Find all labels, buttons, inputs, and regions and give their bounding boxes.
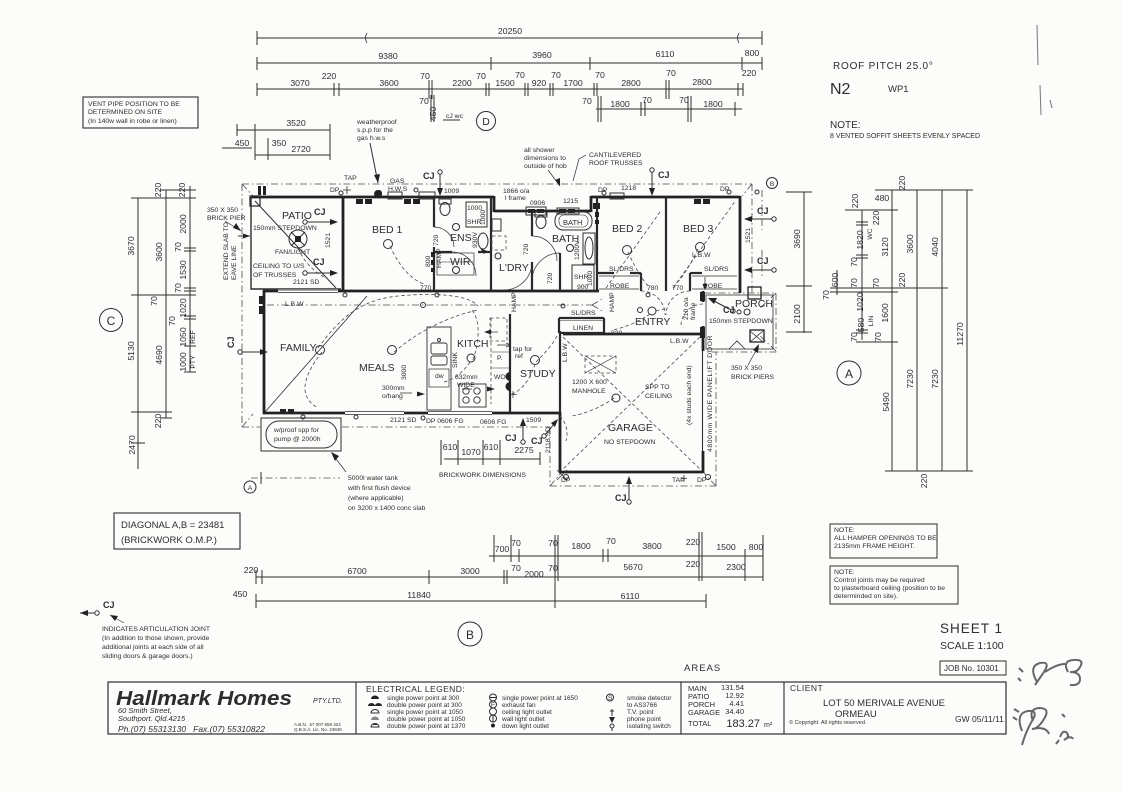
svg-text:8 VENTED SOFFIT SHEETS EVENLY: 8 VENTED SOFFIT SHEETS EVENLY SPACED [830, 133, 980, 140]
svg-text:220: 220 [686, 537, 701, 547]
svg-text:ENS: ENS [450, 232, 472, 244]
svg-text:70: 70 [849, 332, 859, 342]
svg-text:0606 FG: 0606 FG [480, 419, 506, 426]
svg-text:(In addition to those shown, p: (In addition to those shown, provide [102, 635, 210, 642]
svg-text:WO: WO [494, 374, 506, 381]
svg-text:to AS3766: to AS3766 [627, 702, 657, 709]
svg-text:SL/DRS: SL/DRS [704, 266, 729, 273]
svg-text:l frame: l frame [505, 195, 526, 202]
svg-text:SHEET 1: SHEET 1 [940, 621, 1003, 636]
svg-text:(In 140w wall in robe or linen: (In 140w wall in robe or linen) [88, 118, 177, 125]
svg-text:700: 700 [495, 544, 510, 554]
svg-text:3600: 3600 [154, 242, 164, 261]
svg-text:1500: 1500 [716, 542, 735, 552]
svg-text:Control joints may be required: Control joints may be required [834, 577, 925, 584]
svg-text:CEILING TO U/S: CEILING TO U/S [253, 263, 305, 270]
svg-text:WIR: WIR [450, 256, 471, 268]
svg-text:580: 580 [856, 318, 866, 333]
svg-text:220: 220 [742, 68, 757, 78]
svg-text:70: 70 [679, 95, 689, 105]
svg-text:11270: 11270 [955, 322, 965, 346]
svg-text:1218: 1218 [621, 185, 636, 192]
svg-text:tap for: tap for [513, 346, 533, 353]
svg-text:frame: frame [690, 302, 697, 320]
svg-text:220: 220 [686, 559, 701, 569]
svg-text:720: 720 [523, 243, 530, 255]
svg-text:MEALS: MEALS [359, 362, 395, 374]
svg-text:70: 70 [871, 278, 881, 288]
svg-text:w/proof spp for: w/proof spp for [273, 427, 320, 434]
svg-text:INDICATES ARTICULATION JOINT: INDICATES ARTICULATION JOINT [102, 626, 210, 633]
svg-text:FAN/LIGHT: FAN/LIGHT [275, 249, 310, 256]
svg-text:300mm: 300mm [382, 385, 405, 392]
svg-text:150mm STEPDOWN: 150mm STEPDOWN [253, 225, 317, 232]
svg-text:S: S [608, 695, 613, 702]
svg-text:3960: 3960 [532, 50, 551, 60]
svg-text:CLIENT: CLIENT [790, 683, 823, 693]
svg-text:6700: 6700 [347, 566, 366, 576]
svg-text:1820: 1820 [855, 230, 865, 249]
svg-text:800: 800 [425, 255, 432, 267]
svg-text:FAMILY: FAMILY [280, 342, 317, 354]
svg-text:down light outlet: down light outlet [502, 723, 549, 730]
svg-text:183.27: 183.27 [726, 718, 760, 730]
svg-text:NOTE:: NOTE: [834, 527, 855, 534]
svg-text:450: 450 [428, 107, 438, 122]
svg-text:DIAGONAL A,B = 23481: DIAGONAL A,B = 23481 [121, 520, 224, 531]
svg-text:BATH: BATH [563, 218, 582, 227]
svg-text:LIN: LIN [868, 316, 875, 327]
svg-text:determinded on site).: determinded on site). [834, 593, 898, 600]
svg-text:(4x studs each end): (4x studs each end) [686, 365, 693, 425]
svg-text:20250: 20250 [498, 26, 522, 36]
svg-text:1866 o/a: 1866 o/a [503, 188, 530, 195]
svg-text:DP: DP [720, 186, 730, 193]
svg-text:930V: 930V [472, 232, 479, 248]
svg-text:SL/DRS: SL/DRS [609, 266, 634, 273]
svg-text:220: 220 [919, 474, 929, 489]
svg-text:1521: 1521 [325, 233, 332, 248]
svg-text:B: B [466, 628, 474, 642]
svg-text:1800: 1800 [703, 99, 722, 109]
svg-text:2275: 2275 [514, 445, 533, 455]
svg-text:on 3200 x 1400 conc slab: on 3200 x 1400 conc slab [348, 505, 426, 512]
svg-text:3690: 3690 [792, 229, 802, 248]
svg-text:5130: 5130 [126, 341, 136, 360]
svg-text:EAVE LINE: EAVE LINE [231, 245, 238, 280]
svg-text:220: 220 [153, 414, 163, 429]
svg-text:1700: 1700 [563, 78, 582, 88]
svg-text:DP: DP [561, 477, 571, 484]
svg-text:1050: 1050 [178, 327, 188, 346]
svg-text:ceiling light outlet: ceiling light outlet [502, 709, 552, 716]
svg-text:350 X 350: 350 X 350 [207, 207, 238, 214]
svg-text:220: 220 [322, 71, 337, 81]
svg-text:2800: 2800 [621, 78, 640, 88]
svg-text:770: 770 [672, 285, 684, 292]
svg-text:single power point at 1050: single power point at 1050 [387, 709, 463, 716]
svg-text:70: 70 [551, 70, 561, 80]
svg-text:7230: 7230 [930, 369, 940, 388]
svg-text:OF TRUSSES: OF TRUSSES [253, 272, 297, 279]
svg-text:TAP: TAP [344, 175, 357, 182]
svg-text:820: 820 [611, 330, 623, 337]
svg-text:1509: 1509 [526, 417, 541, 424]
svg-text:with first flush device: with first flush device [347, 485, 411, 492]
svg-text:WP1: WP1 [888, 84, 909, 95]
svg-text:1000: 1000 [480, 210, 487, 225]
svg-text:WC: WC [867, 228, 874, 239]
svg-text:720: 720 [433, 234, 440, 246]
svg-text:350 X 350: 350 X 350 [731, 365, 762, 372]
svg-text:DP 0606 FG: DP 0606 FG [426, 418, 464, 425]
svg-text:s.p.p for the: s.p.p for the [357, 127, 393, 134]
svg-text:PTY: PTY [190, 355, 197, 369]
svg-text:70: 70 [849, 278, 859, 288]
svg-text:DP: DP [330, 187, 340, 194]
svg-text:B: B [770, 181, 775, 188]
svg-text:A: A [845, 367, 853, 381]
svg-text:70: 70 [419, 96, 429, 106]
svg-text:HAMP: HAMP [609, 292, 616, 312]
svg-text:BRICK PIER: BRICK PIER [207, 215, 246, 222]
svg-text:34.40: 34.40 [725, 707, 744, 716]
svg-text:2100: 2100 [792, 304, 802, 323]
svg-text:T.V. point: T.V. point [627, 709, 654, 716]
svg-text:NOTE:: NOTE: [834, 569, 855, 576]
svg-text:C: C [107, 314, 116, 328]
svg-text:CJ: CJ [226, 336, 236, 348]
svg-text:70: 70 [173, 242, 183, 252]
svg-text:L.B.W: L.B.W [285, 301, 304, 308]
svg-text:70: 70 [548, 538, 558, 548]
svg-text:cJ wc: cJ wc [446, 113, 464, 120]
svg-text:sliding doors & garage doors.): sliding doors & garage doors.) [102, 653, 193, 660]
svg-text:1000: 1000 [587, 271, 594, 286]
svg-text:3000: 3000 [401, 365, 408, 380]
svg-text:(BRICKWORK O.M.P.): (BRICKWORK O.M.P.) [121, 535, 217, 546]
svg-text:© Copyright. All rights rese: © Copyright. All rights reserved. [789, 719, 867, 726]
svg-text:additional joints at each side: additional joints at each side of all [102, 644, 204, 651]
svg-text:70: 70 [642, 95, 652, 105]
svg-text:610: 610 [443, 442, 458, 452]
svg-text:1020: 1020 [178, 298, 188, 317]
svg-text:350: 350 [272, 138, 287, 148]
svg-text:TOTAL: TOTAL [688, 719, 711, 728]
svg-text:LOT 50 MERIVALE AVENUE: LOT 50 MERIVALE AVENUE [823, 698, 945, 709]
svg-text:BRICKWORK DIMENSIONS: BRICKWORK DIMENSIONS [439, 472, 526, 479]
svg-text:610: 610 [484, 442, 499, 452]
svg-text:450: 450 [235, 138, 250, 148]
svg-text:6110: 6110 [656, 49, 675, 59]
svg-text:5000l water tank: 5000l water tank [348, 475, 398, 482]
svg-text:AREAS: AREAS [684, 663, 721, 674]
svg-text:1000: 1000 [178, 352, 188, 371]
svg-text:1530: 1530 [178, 260, 188, 279]
svg-text:70: 70 [149, 296, 159, 306]
svg-text:70: 70 [606, 536, 616, 546]
svg-text:PTY.LTD.: PTY.LTD. [313, 698, 343, 705]
svg-text:wall light outlet: wall light outlet [501, 716, 545, 723]
svg-text:632mm: 632mm [455, 374, 478, 381]
svg-text:EXTEND SLAB TO: EXTEND SLAB TO [223, 222, 230, 280]
svg-text:3600: 3600 [905, 234, 915, 253]
svg-text:JOB No. 10301: JOB No. 10301 [944, 664, 999, 673]
svg-text:PORCH: PORCH [735, 298, 773, 310]
svg-text:150mm STEPDOWN: 150mm STEPDOWN [709, 318, 773, 325]
svg-text:11840: 11840 [407, 590, 431, 600]
svg-text:ORMEAU: ORMEAU [835, 709, 877, 720]
svg-text:1500: 1500 [495, 78, 514, 88]
svg-text:70: 70 [511, 563, 521, 573]
svg-text:MANHOLE: MANHOLE [572, 388, 606, 395]
svg-text:D: D [482, 116, 490, 128]
svg-text:(where applicable): (where applicable) [348, 495, 404, 502]
svg-text:2000: 2000 [178, 214, 188, 233]
svg-text:o/hang: o/hang [382, 393, 403, 400]
svg-text:TAP: TAP [672, 477, 685, 484]
svg-text:double power point at 1370: double power point at 1370 [387, 723, 466, 730]
svg-text:GW 05/11/11: GW 05/11/11 [955, 714, 1004, 724]
svg-text:2121 SD: 2121 SD [293, 279, 320, 286]
svg-text:800: 800 [749, 542, 764, 552]
svg-text:1020: 1020 [855, 292, 865, 311]
svg-text:BRICK PIERS: BRICK PIERS [731, 374, 775, 381]
svg-text:70: 70 [548, 563, 558, 573]
svg-text:70: 70 [582, 96, 592, 106]
svg-text:dw: dw [435, 373, 444, 380]
svg-text:3000: 3000 [460, 566, 479, 576]
svg-text:L'DRY: L'DRY [499, 262, 529, 274]
svg-text:3520: 3520 [286, 118, 305, 128]
svg-text:920: 920 [532, 78, 547, 88]
svg-text:480: 480 [875, 193, 890, 203]
svg-text:Southport. Qld.4215: Southport. Qld.4215 [118, 714, 186, 723]
svg-text:KITCH: KITCH [457, 338, 489, 350]
svg-text:7230: 7230 [905, 369, 915, 388]
svg-text:1200 X 600: 1200 X 600 [572, 379, 607, 386]
svg-text:CJ: CJ [423, 171, 435, 181]
svg-text:70: 70 [873, 332, 883, 342]
svg-text:dimensions to: dimensions to [524, 155, 566, 162]
svg-text:1200V: 1200V [574, 240, 581, 260]
svg-text:double power point at 300: double power point at 300 [387, 702, 462, 709]
svg-text:double power point at 1050: double power point at 1050 [387, 716, 466, 723]
svg-text:m²: m² [764, 722, 773, 729]
svg-text:smoke detector: smoke detector [627, 695, 672, 702]
svg-text:N2: N2 [830, 81, 851, 98]
svg-text:NO STEPDOWN: NO STEPDOWN [604, 439, 655, 446]
svg-text:HAMP: HAMP [511, 292, 518, 312]
svg-text:220: 220 [850, 194, 860, 209]
svg-text:SINK: SINK [452, 352, 459, 368]
svg-text:CJ: CJ [658, 170, 670, 180]
svg-text:PATIO: PATIO [282, 210, 312, 222]
svg-text:3120: 3120 [880, 237, 890, 256]
svg-text:outside of hob: outside of hob [524, 163, 567, 170]
svg-text:770: 770 [420, 285, 432, 292]
svg-text:SPP TO: SPP TO [645, 384, 670, 391]
svg-text:1600: 1600 [880, 303, 890, 322]
svg-text:CJ: CJ [757, 256, 769, 266]
svg-text:2135mm FRAME HEIGHT.: 2135mm FRAME HEIGHT. [834, 543, 915, 550]
svg-text:P.: P. [497, 355, 503, 362]
svg-text:exhaust fan: exhaust fan [502, 702, 536, 709]
svg-text:4690: 4690 [154, 345, 164, 364]
svg-text:210 o/a: 210 o/a [683, 297, 690, 320]
svg-text:weatherproof: weatherproof [356, 119, 397, 126]
svg-text:isolating switch: isolating switch [627, 723, 671, 730]
svg-text:Ph.(07) 55313130 Fax.(07) 55: Ph.(07) 55313130 Fax.(07) 55310822 [118, 724, 265, 734]
svg-text:GARAGE: GARAGE [608, 422, 653, 434]
svg-text:HAMP: HAMP [436, 248, 443, 268]
svg-text:SCALE 1:100: SCALE 1:100 [940, 640, 1004, 652]
svg-text:70: 70 [511, 538, 521, 548]
svg-text:GARAGE: GARAGE [688, 708, 720, 717]
svg-text:BED 1: BED 1 [372, 224, 403, 236]
svg-text:Q.B.S.A. Lic. No. 23848: Q.B.S.A. Lic. No. 23848 [294, 727, 342, 732]
svg-text:gas h.w.s: gas h.w.s [357, 135, 386, 142]
svg-text:CJ: CJ [314, 207, 326, 217]
svg-text:1009: 1009 [444, 188, 459, 195]
svg-text:1521: 1521 [745, 228, 752, 243]
svg-text:NOTE:: NOTE: [830, 120, 861, 131]
svg-text:all shower: all shower [524, 147, 555, 154]
svg-text:BED 3: BED 3 [683, 223, 714, 235]
svg-text:0906: 0906 [530, 200, 545, 207]
svg-text:1215: 1215 [563, 198, 578, 205]
svg-text:70: 70 [173, 283, 183, 293]
svg-text:REF: REF [190, 330, 197, 344]
svg-text:4800mm WIDE PANELIFT DOOR: 4800mm WIDE PANELIFT DOOR [707, 335, 714, 452]
svg-text:CJ: CJ [615, 493, 627, 503]
svg-text:70: 70 [666, 68, 676, 78]
svg-text:3800: 3800 [642, 541, 661, 551]
svg-text:800: 800 [745, 48, 760, 58]
svg-text:CJ: CJ [757, 206, 769, 216]
svg-text:CJ: CJ [505, 433, 517, 443]
svg-text:single power point at 300: single power point at 300 [387, 695, 460, 702]
svg-text:ENTRY: ENTRY [635, 316, 670, 328]
svg-text:VENT PIPE POSITION TO BE: VENT PIPE POSITION TO BE [88, 101, 180, 108]
svg-text:LINEN: LINEN [573, 325, 593, 332]
svg-text:A: A [248, 485, 253, 492]
svg-text:DETERMINED ON SITE: DETERMINED ON SITE [88, 109, 162, 116]
svg-text:2121 SD: 2121 SD [390, 417, 417, 424]
svg-text:CJ: CJ [531, 436, 543, 446]
svg-text:L.B.W: L.B.W [562, 343, 569, 362]
svg-text:220: 220 [897, 273, 907, 288]
svg-text:1800: 1800 [571, 541, 590, 551]
svg-text:220: 220 [177, 183, 187, 198]
svg-text:70: 70 [821, 290, 831, 300]
svg-text:4040: 4040 [930, 237, 940, 256]
svg-text:3670: 3670 [126, 236, 136, 255]
svg-text:2800: 2800 [692, 77, 711, 87]
svg-text:3070: 3070 [290, 78, 309, 88]
svg-text:70: 70 [420, 71, 430, 81]
svg-text:220: 220 [897, 176, 907, 191]
svg-text:70: 70 [476, 71, 486, 81]
svg-text:ROBE: ROBE [610, 283, 630, 290]
svg-text:CANTILEVERED: CANTILEVERED [589, 152, 641, 159]
svg-text:SL/DRS: SL/DRS [571, 310, 596, 317]
svg-text:780: 780 [647, 285, 659, 292]
svg-text:phone point: phone point [627, 716, 661, 723]
svg-text:220: 220 [244, 565, 259, 575]
svg-text:ref: ref [515, 353, 523, 360]
svg-text:2300: 2300 [726, 562, 745, 572]
svg-text:ROOF PITCH 25.0°: ROOF PITCH 25.0° [833, 61, 934, 72]
svg-text:ALL HAMPER OPENINGS TO BE: ALL HAMPER OPENINGS TO BE [834, 535, 937, 542]
svg-text:9380: 9380 [378, 51, 397, 61]
svg-text:CJ: CJ [313, 257, 325, 267]
svg-text:720: 720 [547, 272, 554, 284]
svg-text:70: 70 [849, 257, 859, 267]
svg-text:1800: 1800 [610, 99, 629, 109]
svg-text:70: 70 [167, 316, 177, 326]
svg-text:STUDY: STUDY [520, 368, 556, 380]
svg-text:6110: 6110 [621, 591, 640, 601]
svg-text:220: 220 [153, 183, 163, 198]
svg-text:CEILING: CEILING [645, 393, 672, 400]
svg-text:ROOF TRUSSES: ROOF TRUSSES [589, 160, 643, 167]
svg-text:2470: 2470 [127, 435, 137, 454]
svg-text:450: 450 [233, 589, 248, 599]
svg-text:2200: 2200 [452, 78, 471, 88]
svg-text:5490: 5490 [881, 392, 891, 411]
svg-text:3600: 3600 [379, 78, 398, 88]
svg-text:ELECTRICAL LEGEND:: ELECTRICAL LEGEND: [366, 684, 465, 694]
svg-text:70: 70 [515, 70, 525, 80]
svg-text:pump @ 2000h: pump @ 2000h [274, 436, 321, 443]
svg-text:CJ: CJ [103, 600, 115, 610]
svg-text:220: 220 [871, 211, 881, 226]
svg-text:single power point at 1650: single power point at 1650 [502, 695, 578, 702]
svg-text:to plasterboard ceiling (posit: to plasterboard ceiling (position to be [834, 585, 945, 592]
svg-text:2720: 2720 [291, 144, 310, 154]
svg-text:600: 600 [830, 273, 840, 288]
svg-text:1070: 1070 [461, 447, 480, 457]
svg-text:2000: 2000 [524, 569, 543, 579]
svg-text:WIDE: WIDE [457, 382, 475, 389]
svg-text:BED 2: BED 2 [612, 223, 643, 235]
svg-text:70: 70 [595, 70, 605, 80]
svg-text:5670: 5670 [623, 562, 642, 572]
svg-text:L.B.W: L.B.W [670, 338, 689, 345]
